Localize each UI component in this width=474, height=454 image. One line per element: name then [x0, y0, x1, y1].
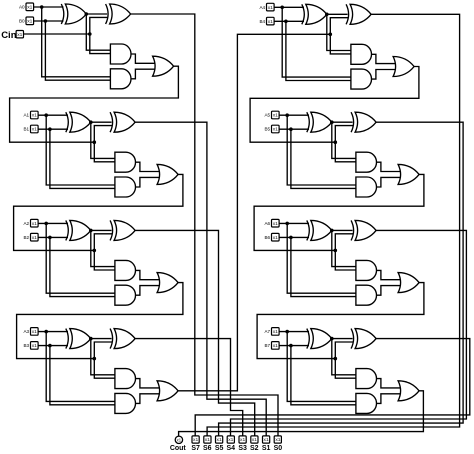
svg-text:x1: x1 [240, 437, 245, 443]
input pin A4 [267, 3, 275, 11]
wire A2 to XOR [38, 222, 68, 224]
wire carry-in 6 riser to XOR2 [335, 234, 353, 251]
node B4 junction [284, 20, 288, 24]
xor gate U6A (A xor B) [307, 220, 310, 240]
xor gate U2A (A xor B) [66, 220, 69, 240]
wire half-sum 1 to AND1 [91, 122, 115, 158]
wire carry-in 4 riser to XOR2 [330, 18, 348, 35]
wire A6 to XOR [279, 222, 309, 224]
output pin S1 [263, 436, 270, 443]
wire B6 to XOR [279, 236, 309, 238]
wire carry-in 3 riser to XOR2 [94, 342, 112, 359]
node A7 junction [285, 330, 289, 334]
and gate U3D (A and B) [115, 393, 136, 413]
input pin B2 [31, 233, 39, 241]
svg-text:x1: x1 [205, 437, 210, 443]
svg-text:Cout: Cout [170, 445, 187, 452]
svg-text:x1: x1 [228, 437, 233, 443]
wire B5 to XOR [279, 128, 309, 130]
wire and2 6 to OR [376, 286, 400, 296]
svg-text:x1: x1 [27, 5, 32, 11]
or gate U1E (carry out 1) [157, 164, 178, 184]
svg-text:x1: x1 [32, 343, 37, 349]
input pin A1 [31, 111, 39, 119]
wire B4 down to AND [286, 21, 351, 80]
node half-sum 5 junction [330, 120, 334, 124]
svg-text:x1: x1 [32, 113, 37, 119]
xor gate U5A (A xor B) [307, 112, 310, 132]
node half-sum 3 junction [89, 337, 93, 341]
svg-text:x1: x1 [252, 437, 257, 443]
svg-text:x1: x1 [264, 437, 269, 443]
and gate U2C (halfsum and carry) [115, 260, 136, 280]
wire carry-in 5 riser to XOR2 [335, 126, 353, 143]
wire half-sum 2 to AND1 [91, 230, 115, 266]
and gate U1D (A and B) [115, 177, 136, 197]
svg-text:x1: x1 [32, 329, 37, 335]
wire and2 7 to OR [376, 394, 400, 404]
xor gate U3A (A xor B) [66, 329, 69, 349]
svg-text:S2: S2 [250, 445, 259, 452]
xor gate U3B (sum3) [110, 329, 113, 349]
input pin B1 [31, 125, 39, 133]
wire sum5 to pin S5 [219, 122, 464, 436]
wire half-sum 2 to XOR2 [91, 229, 112, 231]
and gate U6D (A and B) [356, 285, 377, 305]
svg-text:x1: x1 [268, 19, 273, 25]
svg-text:x1: x1 [275, 437, 280, 443]
input pin B3 [31, 342, 39, 350]
node B2 junction [48, 236, 52, 240]
wire A5 down to AND [287, 115, 356, 185]
node half-sum 4 junction [325, 13, 329, 17]
wire and2 0 to OR [131, 69, 155, 79]
input pin A0 [26, 3, 34, 11]
node half-sum 6 junction [330, 229, 334, 233]
wire and2 2 to OR [135, 286, 159, 296]
input pin B4 [267, 17, 275, 25]
svg-text:A4: A4 [259, 5, 265, 10]
output pin S4 [227, 436, 234, 443]
input pin B7 [272, 342, 280, 350]
output pin S6 [204, 436, 211, 443]
wire sum4 to pin S4 [207, 14, 460, 436]
node half-sum 2 junction [89, 229, 93, 233]
wire carry7 to Cout [179, 391, 424, 437]
svg-text:S7: S7 [191, 445, 200, 452]
wire sum6 to pin S6 [231, 230, 467, 436]
wire B0 down to AND [45, 21, 110, 80]
wire carry-in 7 riser to XOR2 [335, 342, 353, 359]
svg-text:S5: S5 [215, 445, 224, 452]
svg-text:x1: x1 [32, 235, 37, 241]
or gate U7E (carry out 7) [398, 381, 419, 401]
svg-text:A2: A2 [23, 221, 29, 226]
node A2 junction [44, 222, 48, 226]
wire carry-in 2 to AND1 [94, 250, 115, 270]
node B1 junction [48, 127, 52, 131]
wire half-sum 4 to XOR2 [327, 13, 348, 15]
wire B4 to XOR [274, 20, 304, 22]
wire carry0 to adder1 [10, 66, 179, 142]
input pin Cin [16, 31, 23, 38]
wire carry-in 5 to AND1 [335, 142, 356, 162]
svg-text:A3: A3 [23, 329, 29, 334]
wire half-sum 7 to AND1 [332, 339, 356, 375]
node B7 junction [289, 344, 293, 348]
wire B2 down to AND [50, 237, 115, 296]
wire sum7 to pin S7 [195, 339, 470, 436]
wire A7 to XOR [279, 331, 309, 333]
wire and1 4 to OR [371, 54, 395, 63]
xor gate U2B (sum2) [110, 220, 113, 240]
svg-text:A6: A6 [264, 221, 270, 226]
node carry-in 2 junction [93, 249, 97, 253]
node A3 junction [44, 330, 48, 334]
wire half-sum 1 to XOR2 [91, 121, 112, 123]
wire and1 6 to OR [376, 270, 400, 279]
svg-text:x1: x1 [177, 437, 182, 442]
or gate U2E (carry out 2) [157, 273, 178, 293]
wire and1 1 to OR [135, 162, 159, 171]
output pin S0 [274, 436, 281, 443]
wire A6 down to AND [287, 223, 356, 293]
wire and2 5 to OR [376, 177, 400, 187]
svg-text:S6: S6 [203, 445, 212, 452]
xor gate U0B (sum0) [106, 4, 109, 24]
svg-text:S3: S3 [238, 445, 247, 452]
svg-text:x1: x1 [273, 235, 278, 241]
node carry-in 6 junction [334, 249, 338, 253]
node B0 junction [44, 19, 48, 23]
svg-text:x1: x1 [268, 5, 273, 11]
wire carry3 to adder4 [178, 34, 330, 391]
wire half-sum 0 to XOR2 [86, 13, 107, 15]
svg-text:S4: S4 [227, 445, 236, 452]
svg-text:B2: B2 [23, 235, 29, 240]
wire carry5 to adder6 [254, 174, 424, 250]
wire carry-in 4 to AND1 [330, 34, 351, 54]
xor gate U1B (sum1) [110, 112, 113, 132]
wire A3 down to AND [46, 332, 115, 402]
wire B7 to XOR [279, 345, 309, 347]
wire and2 3 to OR [135, 394, 159, 404]
svg-text:B6: B6 [264, 235, 270, 240]
or gate U3E (carry out 3) [157, 381, 178, 401]
node half-sum 7 junction [330, 337, 334, 341]
wire and1 7 to OR [376, 379, 400, 388]
wire and1 3 to OR [135, 379, 159, 388]
wire A4 to XOR [274, 6, 304, 8]
input pin B5 [272, 125, 280, 133]
wire carry-in 1 riser to XOR2 [94, 126, 112, 143]
wire sum0 to pin S0 [131, 14, 278, 436]
wire sum2 to pin S2 [135, 230, 255, 436]
wire half-sum 4 to AND1 [327, 14, 351, 50]
wire sum1 to pin S1 [135, 122, 266, 436]
wire half-sum 6 to AND1 [332, 230, 356, 266]
svg-text:x1: x1 [273, 127, 278, 133]
and gate U2D (A and B) [115, 285, 136, 305]
node carry-in 4 junction [329, 33, 333, 37]
xor gate U6B (sum6) [351, 220, 354, 240]
wire A2 down to AND [46, 223, 115, 293]
and gate U3C (halfsum and carry) [115, 369, 136, 389]
svg-text:S1: S1 [262, 445, 271, 452]
and gate U0C (halfsum and carry) [110, 44, 131, 64]
wire B3 to XOR [38, 345, 68, 347]
node B5 junction [289, 127, 293, 131]
xor gate U5B (sum5) [351, 112, 354, 132]
svg-text:x1: x1 [217, 437, 222, 443]
node carry-in 3 junction [93, 357, 97, 361]
svg-text:x1: x1 [273, 221, 278, 227]
wire carry-in 2 riser to XOR2 [94, 234, 112, 251]
wire half-sum 5 to XOR2 [332, 121, 353, 123]
wire B6 down to AND [291, 237, 356, 296]
wire and2 4 to OR [371, 70, 395, 80]
wire carry-in 0 to AND1 [90, 34, 111, 54]
svg-text:B5: B5 [264, 127, 270, 132]
input pin B0 [26, 17, 34, 25]
node carry-in 5 junction [334, 140, 338, 144]
wire B1 down to AND [50, 129, 115, 188]
input pin A5 [272, 111, 280, 119]
xor gate U4A (A xor B) [302, 4, 305, 24]
node carry-in 1 junction [93, 140, 97, 144]
wire Cin to adder0 [24, 33, 90, 35]
svg-text:x1: x1 [273, 113, 278, 119]
svg-text:S0: S0 [274, 445, 283, 452]
node B3 junction [48, 344, 52, 348]
input pin B6 [272, 233, 280, 241]
node B6 junction [289, 236, 293, 240]
node A4 junction [280, 6, 284, 10]
wire carry6 to adder7 [257, 283, 424, 359]
node carry-in 7 junction [334, 357, 338, 361]
wire A1 to XOR [38, 114, 68, 116]
svg-text:B1: B1 [23, 127, 29, 132]
svg-text:A7: A7 [264, 329, 270, 334]
svg-text:x1: x1 [17, 32, 22, 38]
svg-text:x1: x1 [273, 343, 278, 349]
or gate U6E (carry out 6) [398, 273, 419, 293]
node A6 junction [285, 222, 289, 226]
svg-text:B4: B4 [259, 19, 265, 24]
wire carry4 to adder5 [250, 67, 419, 143]
and gate U5C (halfsum and carry) [356, 152, 377, 172]
wire and2 1 to OR [135, 177, 159, 187]
and gate U6C (halfsum and carry) [356, 260, 377, 280]
wire and1 0 to OR [131, 54, 155, 63]
wire carry-in 0 riser to XOR2 [90, 17, 108, 34]
and gate U1C (halfsum and carry) [115, 152, 136, 172]
wire A5 to XOR [279, 114, 309, 116]
wire carry-in 7 to AND1 [335, 359, 356, 379]
wire B1 to XOR [38, 128, 68, 130]
and gate U0D (A and B) [110, 69, 131, 89]
wire half-sum 5 to AND1 [332, 122, 356, 158]
wire A0 to XOR [34, 6, 64, 8]
node half-sum 1 junction [89, 120, 93, 124]
xor gate U7B (sum7) [351, 329, 354, 349]
or gate U5E (carry out 5) [398, 164, 419, 184]
xor gate U4B (sum4) [346, 4, 349, 24]
wire half-sum 6 to XOR2 [332, 229, 353, 231]
svg-text:x1: x1 [273, 329, 278, 335]
output pin S2 [251, 436, 258, 443]
wire A0 down to AND [42, 7, 111, 77]
wire sum3 to pin S3 [135, 339, 243, 436]
output pin S3 [239, 436, 246, 443]
svg-text:A1: A1 [23, 113, 29, 118]
wire B7 down to AND [291, 346, 356, 405]
node half-sum 0 junction [85, 12, 89, 16]
svg-text:x1: x1 [27, 19, 32, 25]
and gate U7C (halfsum and carry) [356, 369, 377, 389]
and gate U4D (A and B) [351, 69, 372, 89]
and gate U7D (A and B) [356, 393, 377, 413]
input pin A7 [272, 328, 280, 336]
wire B3 down to AND [50, 346, 115, 405]
svg-text:x1: x1 [32, 127, 37, 133]
wire half-sum 3 to AND1 [91, 339, 115, 375]
wire half-sum 3 to XOR2 [91, 338, 112, 340]
wire A4 down to AND [282, 7, 351, 77]
output pin Cout [175, 436, 182, 443]
input pin A6 [272, 219, 280, 227]
svg-text:B0: B0 [19, 19, 25, 24]
svg-text:Cin: Cin [1, 30, 17, 41]
wire B2 to XOR [38, 236, 68, 238]
xor gate U0A (A xor B) [61, 4, 64, 24]
svg-text:x1: x1 [193, 437, 198, 443]
svg-text:B3: B3 [23, 343, 29, 348]
or gate U4E (carry out 4) [393, 57, 414, 77]
node carry-in 0 junction [88, 32, 92, 36]
and gate U4C (halfsum and carry) [351, 44, 372, 64]
wire and1 5 to OR [376, 162, 400, 171]
wire A7 down to AND [287, 332, 356, 402]
and gate U5D (A and B) [356, 177, 377, 197]
wire carry-in 6 to AND1 [335, 250, 356, 270]
xor gate U1A (A xor B) [66, 112, 69, 132]
output pin S7 [192, 436, 199, 443]
wire carry-in 1 to AND1 [94, 142, 115, 162]
wire half-sum 7 to XOR2 [332, 338, 353, 340]
svg-text:B7: B7 [264, 343, 270, 348]
xor gate U7A (A xor B) [307, 329, 310, 349]
input pin A2 [31, 219, 39, 227]
wire and1 2 to OR [135, 270, 159, 279]
wire B0 to XOR [34, 20, 64, 22]
wire carry2 to adder3 [17, 283, 183, 359]
wire A3 to XOR [38, 331, 68, 333]
output pin S5 [216, 436, 223, 443]
input pin A3 [31, 328, 39, 336]
wire carry-in 3 to AND1 [94, 359, 115, 379]
svg-text:A0: A0 [19, 5, 25, 10]
svg-text:A5: A5 [264, 113, 270, 118]
wire A1 down to AND [46, 115, 115, 185]
wire B5 down to AND [291, 129, 356, 188]
or gate U0E (carry out 0) [153, 56, 174, 76]
svg-text:x1: x1 [32, 221, 37, 227]
wire half-sum 0 to AND1 [86, 14, 110, 50]
node A1 junction [44, 113, 48, 117]
node A0 junction [40, 5, 44, 9]
wire carry1 to adder2 [14, 174, 183, 250]
node A5 junction [285, 113, 289, 117]
